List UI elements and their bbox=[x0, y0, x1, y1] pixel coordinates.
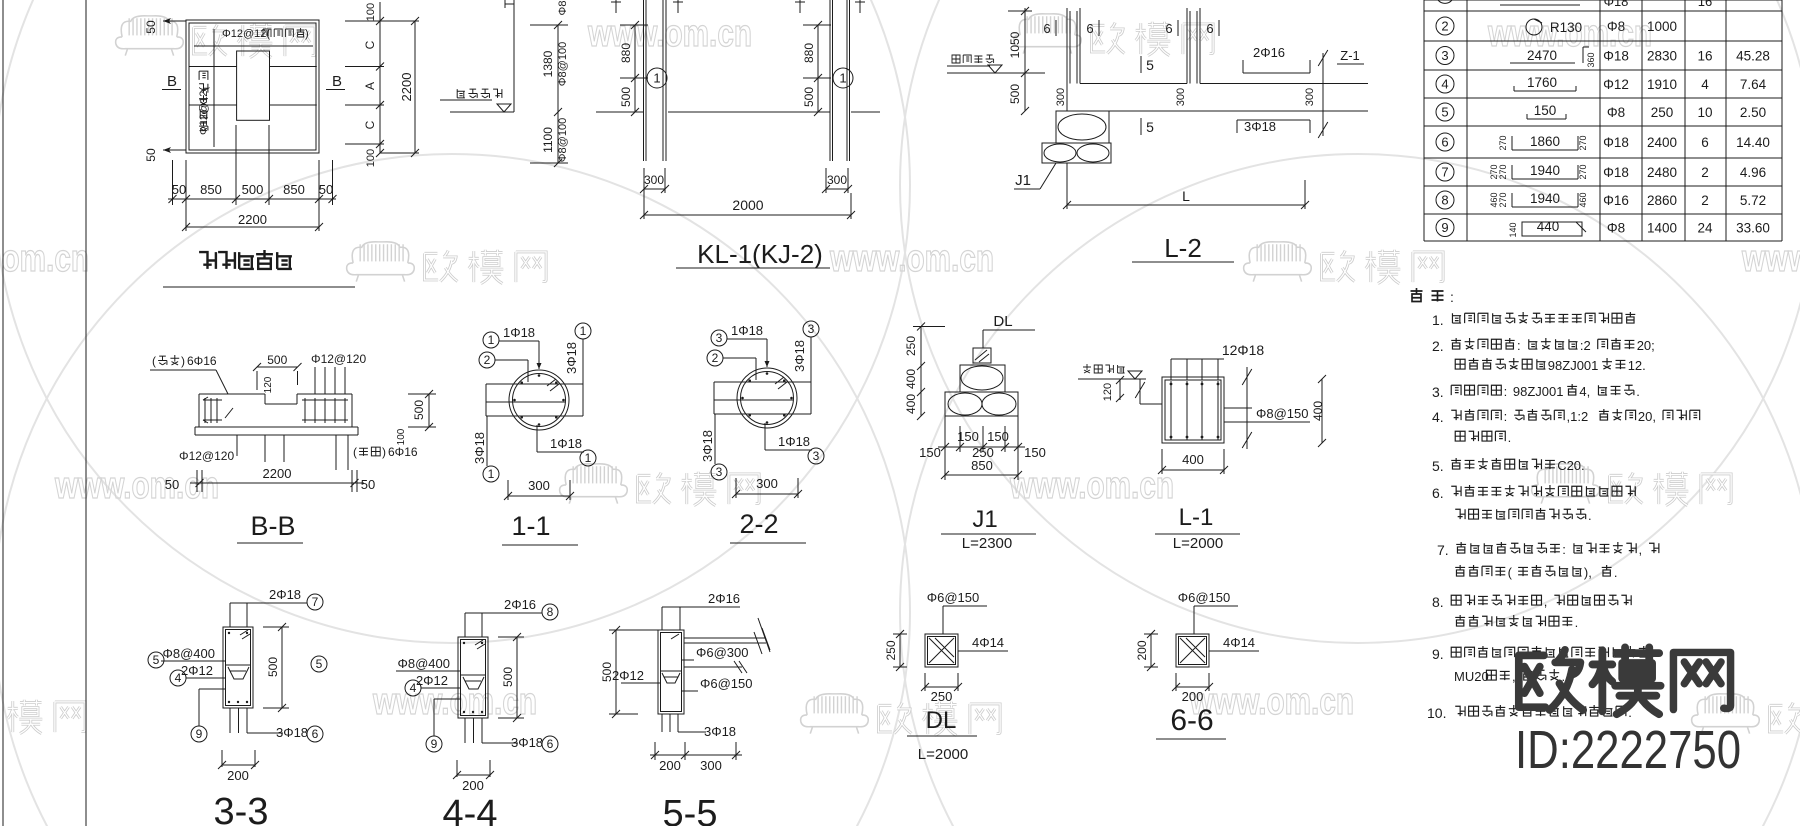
L-2 section marks 6 bbox=[1043, 20, 1219, 36]
svg-text:Φ16: Φ16 bbox=[1603, 193, 1629, 208]
svg-text:50: 50 bbox=[361, 477, 375, 492]
J1 stones bbox=[945, 365, 1018, 416]
svg-text:1Φ18: 1Φ18 bbox=[550, 436, 582, 451]
svg-text:500: 500 bbox=[600, 662, 614, 682]
L-2 right break bbox=[1310, 50, 1368, 138]
svg-text:400: 400 bbox=[904, 369, 918, 389]
svg-text:200: 200 bbox=[462, 778, 484, 793]
svg-text:400: 400 bbox=[904, 394, 918, 414]
L-2 bottom dim L bbox=[1063, 163, 1309, 209]
svg-text:6: 6 bbox=[1701, 135, 1709, 150]
section 3-3 label 2phi12 bbox=[170, 663, 225, 686]
section 5-5 bottom dims 200 300 bbox=[650, 742, 742, 773]
svg-text:2: 2 bbox=[484, 353, 491, 367]
svg-text:2.: 2. bbox=[1432, 338, 1444, 354]
KL-1 bottom dim 2000 bbox=[640, 193, 855, 219]
notes text block bbox=[1427, 312, 1700, 721]
svg-text:6.: 6. bbox=[1432, 485, 1444, 501]
svg-text:270: 270 bbox=[1578, 164, 1588, 179]
svg-text:2Φ16: 2Φ16 bbox=[708, 591, 740, 606]
svg-text:1.: 1. bbox=[1432, 312, 1444, 328]
section 1-1 dim 300 bbox=[504, 478, 574, 500]
svg-text:J1: J1 bbox=[1015, 172, 1031, 189]
svg-text:6: 6 bbox=[1165, 21, 1172, 36]
J1 title bbox=[941, 506, 1036, 552]
svg-text:100: 100 bbox=[365, 3, 377, 21]
section 5-5 label phi6at300 bbox=[682, 645, 749, 660]
svg-text:DL: DL bbox=[926, 707, 957, 734]
KL-1 section marks 1 top bbox=[611, 0, 865, 13]
svg-text:850: 850 bbox=[283, 182, 305, 197]
svg-text:850: 850 bbox=[200, 182, 222, 197]
section 6-6 label phi6at150 bbox=[1178, 590, 1238, 634]
section 3-3 bottom bars bbox=[230, 708, 323, 742]
svg-text:500: 500 bbox=[267, 353, 287, 367]
svg-text:.: . bbox=[1636, 384, 1640, 399]
plan left rotated rebar label bbox=[198, 71, 210, 135]
plan right dim C A C bbox=[345, 2, 384, 167]
svg-text:2000: 2000 bbox=[732, 197, 763, 213]
svg-text:2: 2 bbox=[1441, 19, 1448, 34]
svg-text:500: 500 bbox=[802, 87, 816, 107]
svg-text:150: 150 bbox=[1534, 103, 1557, 118]
plan center column rect bbox=[237, 51, 270, 120]
svg-text:440: 440 bbox=[1537, 219, 1560, 234]
svg-text:1400: 1400 bbox=[1647, 221, 1677, 236]
svg-text:3: 3 bbox=[1441, 48, 1448, 63]
svg-text:Φ18: Φ18 bbox=[1604, 0, 1629, 9]
plan title bbox=[163, 250, 355, 287]
section 3-3 column rect bbox=[223, 627, 253, 708]
svg-text:L=2000: L=2000 bbox=[1173, 535, 1223, 552]
svg-text:3Φ18: 3Φ18 bbox=[564, 342, 579, 374]
svg-text:1Φ18: 1Φ18 bbox=[503, 325, 535, 340]
L-2 level symbol 二层标高 bbox=[947, 55, 1045, 73]
svg-text:Φ18: Φ18 bbox=[1603, 49, 1629, 64]
svg-text:50: 50 bbox=[319, 182, 333, 197]
svg-text:8: 8 bbox=[547, 605, 554, 619]
svg-text:16: 16 bbox=[1697, 49, 1712, 64]
section 4-4 leader 9 bbox=[426, 699, 460, 752]
KL-1 bottom dim 300 left bbox=[640, 168, 669, 193]
KL-1 bottom dim 300 right bbox=[822, 168, 852, 193]
svg-text:1: 1 bbox=[585, 451, 592, 465]
svg-text:1-1: 1-1 bbox=[511, 511, 550, 541]
L-2 wall B bbox=[1187, 8, 1200, 84]
svg-text:5: 5 bbox=[153, 653, 160, 667]
section 2-2 leader 2 bbox=[707, 350, 756, 380]
svg-text:L=2000: L=2000 bbox=[918, 746, 968, 763]
B-B dim 500 top bbox=[253, 353, 302, 390]
svg-text:2: 2 bbox=[712, 351, 719, 365]
section 4-4 label 2phi12 bbox=[405, 673, 460, 696]
svg-text:250: 250 bbox=[931, 689, 953, 704]
svg-text:1: 1 bbox=[488, 333, 495, 347]
svg-text:120: 120 bbox=[1102, 383, 1114, 401]
B-B rebar right group bbox=[302, 398, 348, 423]
svg-text::: : bbox=[1504, 409, 1508, 424]
section 5-5 hook bbox=[661, 671, 682, 683]
svg-text:12.: 12. bbox=[1628, 358, 1646, 373]
section 4-4 title bbox=[443, 793, 498, 831]
KL-1 left column line bbox=[505, 0, 514, 112]
svg-text:9: 9 bbox=[1441, 220, 1448, 235]
B-B footing outline bbox=[195, 394, 358, 435]
svg-text:100: 100 bbox=[365, 149, 377, 167]
svg-text:.: . bbox=[1614, 565, 1618, 580]
section 1-1 leader 3phi18 right bbox=[564, 323, 591, 384]
watermark row A bbox=[116, 13, 1652, 58]
svg-text:100: 100 bbox=[396, 428, 407, 445]
section 4-4 hook detail bbox=[461, 675, 486, 689]
svg-text:3: 3 bbox=[716, 331, 723, 345]
svg-text:7: 7 bbox=[312, 595, 319, 609]
section 3-3 leader 9 bbox=[191, 689, 225, 742]
svg-text:500: 500 bbox=[266, 657, 280, 677]
svg-text::: : bbox=[1504, 384, 1508, 399]
svg-text:6: 6 bbox=[1086, 21, 1093, 36]
section 1-1 leader 1phi18 bottom bbox=[537, 425, 596, 466]
svg-text:1: 1 bbox=[488, 467, 495, 481]
svg-text:500: 500 bbox=[1008, 84, 1022, 104]
B-B bottom dim 50 2200 50 bbox=[165, 466, 375, 492]
svg-text:1: 1 bbox=[839, 71, 846, 86]
section 5-5 left dim 500 bbox=[600, 626, 659, 718]
svg-text:2200: 2200 bbox=[238, 212, 267, 227]
B-B lower stubs bbox=[265, 435, 348, 470]
rebar table shape row5 bbox=[1527, 103, 1566, 119]
svg-text:460: 460 bbox=[1578, 192, 1588, 207]
section 2-2 leader 3phi18 right bbox=[792, 321, 819, 382]
svg-text:www.om.cn: www.om.cn bbox=[1189, 681, 1354, 723]
svg-text:150: 150 bbox=[987, 429, 1009, 444]
svg-text:3Φ18: 3Φ18 bbox=[792, 340, 807, 372]
section 5-5 lower beam line bbox=[684, 661, 747, 673]
svg-text:5.72: 5.72 bbox=[1740, 193, 1766, 208]
svg-text:400: 400 bbox=[1182, 452, 1204, 467]
section 1-1 leader 1phi18 top bbox=[483, 325, 542, 369]
svg-text:L=2300: L=2300 bbox=[962, 535, 1012, 552]
L-2 rotated dims 300 bbox=[1055, 88, 1316, 106]
section mark B left bbox=[162, 73, 181, 90]
svg-text:5: 5 bbox=[1146, 119, 1154, 135]
svg-text:Φ8: Φ8 bbox=[1607, 221, 1625, 236]
svg-text:5: 5 bbox=[1441, 105, 1448, 120]
J1 DL square bbox=[973, 348, 991, 363]
section 1-1 beam stubs bbox=[486, 384, 583, 416]
svg-text:2830: 2830 bbox=[1647, 49, 1677, 64]
section 1-1 column circle bbox=[509, 370, 569, 430]
svg-text:20,: 20, bbox=[1638, 409, 1656, 424]
rebar table shape row8 bbox=[1489, 191, 1588, 208]
svg-text:3.: 3. bbox=[1432, 384, 1444, 400]
svg-text:3Φ18: 3Φ18 bbox=[704, 724, 736, 739]
plan right dim 2200 bbox=[380, 17, 419, 157]
svg-text:8.: 8. bbox=[1432, 594, 1444, 610]
section 4-4 column rect bbox=[458, 637, 488, 718]
svg-text:2Φ12: 2Φ12 bbox=[416, 673, 448, 688]
section 6-6 square bbox=[1176, 634, 1209, 667]
section 2-2 leader 3phi18 bottom-left bbox=[700, 414, 727, 480]
svg-text:300: 300 bbox=[644, 173, 664, 187]
svg-text:Φ6@150: Φ6@150 bbox=[700, 676, 753, 691]
svg-text:Φ8@100: Φ8@100 bbox=[557, 118, 569, 162]
section 6-6 title bbox=[1156, 704, 1226, 739]
L-2 left dim 1050 500 bbox=[1008, 7, 1032, 115]
svg-text:300: 300 bbox=[1055, 88, 1067, 106]
section 6-6 label 4phi14 bbox=[1209, 635, 1259, 651]
L-2 title bbox=[1132, 233, 1234, 263]
svg-text:3: 3 bbox=[716, 465, 723, 479]
svg-text:7.: 7. bbox=[1437, 542, 1449, 558]
section 1-1 leader 3phi18 bottom-left bbox=[472, 416, 499, 482]
KL-1 left dim 1380 1100 bbox=[530, 1, 569, 167]
svg-text:2400: 2400 bbox=[1647, 135, 1677, 150]
svg-text:1: 1 bbox=[653, 71, 660, 86]
svg-text:1860: 1860 bbox=[1530, 134, 1560, 149]
svg-text:500: 500 bbox=[242, 182, 264, 197]
L-2 stone footing J1 bbox=[1042, 111, 1111, 163]
section 5-5 label phi6at150 bbox=[682, 676, 753, 691]
svg-text:Φ8@400: Φ8@400 bbox=[398, 656, 451, 671]
KL-1 beam top line bbox=[596, 111, 880, 113]
watermark row D bbox=[0, 681, 1800, 736]
svg-text:4Φ14: 4Φ14 bbox=[1223, 635, 1255, 650]
B-B label fujia 6phi16 left bbox=[150, 354, 228, 394]
svg-text:2Φ16: 2Φ16 bbox=[1253, 45, 1285, 60]
svg-text:98ZJ001: 98ZJ001 bbox=[1548, 358, 1599, 373]
section mark B right bbox=[326, 73, 345, 90]
section 5-5 beam stub right bbox=[684, 618, 770, 654]
svg-text:.: . bbox=[1575, 615, 1579, 630]
section 2-2 title bbox=[730, 509, 806, 543]
rebar table shape row7 bbox=[1489, 163, 1588, 180]
L-1 level symbol 二层标高 bbox=[1078, 364, 1146, 379]
B-B right dim 500 100 bbox=[396, 390, 436, 445]
svg-text:5: 5 bbox=[316, 657, 323, 671]
svg-text:C: C bbox=[363, 40, 377, 49]
svg-text:1940: 1940 bbox=[1530, 163, 1560, 178]
svg-text:500: 500 bbox=[619, 87, 633, 107]
svg-text:6: 6 bbox=[312, 727, 319, 741]
svg-text:6Φ16: 6Φ16 bbox=[187, 354, 217, 368]
plan top rebar label bbox=[222, 28, 309, 40]
svg-text:300: 300 bbox=[827, 173, 847, 187]
section DL left dim bbox=[884, 630, 907, 671]
svg-text:880: 880 bbox=[619, 43, 633, 63]
svg-text::: : bbox=[1562, 542, 1566, 557]
svg-text:1100: 1100 bbox=[541, 127, 555, 153]
L-1 title bbox=[1155, 504, 1240, 552]
svg-text:2Φ12: 2Φ12 bbox=[181, 663, 213, 678]
svg-text:5-5: 5-5 bbox=[663, 793, 718, 826]
B-B label phi12at120 top bbox=[311, 352, 366, 394]
svg-text:www.om.cn: www.om.cn bbox=[829, 238, 994, 280]
svg-text:2: 2 bbox=[1701, 165, 1709, 180]
svg-text::: : bbox=[1450, 289, 1454, 305]
section 4-4 top bars leader bbox=[465, 597, 558, 637]
L-2 section marks 5 bbox=[1141, 56, 1154, 135]
KL-1 column B rebar bbox=[830, 0, 850, 161]
svg-text:B-B: B-B bbox=[250, 511, 295, 541]
section 1-1 leader 2 bbox=[479, 352, 528, 382]
KL-1 title bbox=[676, 239, 830, 269]
rebar table shape row4 bbox=[1514, 75, 1576, 91]
svg-text:B: B bbox=[332, 73, 342, 90]
svg-text:Φ12: Φ12 bbox=[1603, 77, 1629, 92]
J1 dim 850 bbox=[941, 458, 1022, 479]
svg-text:Φ8: Φ8 bbox=[1607, 105, 1625, 120]
svg-text:2480: 2480 bbox=[1647, 165, 1677, 180]
svg-text:Φ8@150: Φ8@150 bbox=[1256, 406, 1309, 421]
section 6-6 bottom dim bbox=[1172, 673, 1213, 704]
KL-1 level symbol 一层标高 bbox=[440, 89, 514, 112]
svg-text:1940: 1940 bbox=[1530, 191, 1560, 206]
section 5-5 bottom bars bbox=[662, 714, 736, 739]
svg-text:200: 200 bbox=[659, 758, 681, 773]
rebar table phi length count weight bbox=[1603, 19, 1770, 236]
KL-1 column A rebar bbox=[644, 0, 667, 161]
svg-text:3: 3 bbox=[813, 449, 820, 463]
svg-text:270: 270 bbox=[1578, 135, 1588, 150]
svg-text:3: 3 bbox=[808, 322, 815, 336]
section 5-5 title bbox=[663, 793, 718, 831]
svg-text:www.om.cn: www.om.cn bbox=[1741, 238, 1800, 280]
KL-1 col A dims 880 500 bbox=[619, 21, 648, 116]
watermark row B bbox=[0, 238, 1800, 284]
L-1 right break and label bbox=[1224, 367, 1310, 449]
notes heading bbox=[1411, 288, 1454, 305]
svg-text:2200: 2200 bbox=[263, 466, 292, 481]
svg-text:50: 50 bbox=[165, 477, 179, 492]
svg-text:1000: 1000 bbox=[1647, 19, 1677, 34]
big logo OMW bbox=[1519, 647, 1731, 714]
svg-text:www.om.cn: www.om.cn bbox=[1009, 465, 1174, 507]
section DL title bbox=[907, 707, 977, 763]
L-2 wall A bbox=[1067, 8, 1080, 111]
rebar table shape row3 bbox=[1510, 47, 1596, 68]
svg-text:,: , bbox=[1639, 542, 1643, 557]
section 2-2 leader 1phi18 top bbox=[711, 323, 770, 367]
svg-text:3Φ18: 3Φ18 bbox=[511, 735, 543, 750]
svg-text:C20.: C20. bbox=[1557, 458, 1584, 473]
L-1 right dim 400 bbox=[1311, 375, 1326, 447]
svg-text:50: 50 bbox=[144, 20, 158, 34]
B-B dim 120 bbox=[263, 376, 274, 393]
section 3-3 label phi8at400 bbox=[161, 646, 225, 661]
svg-text:50: 50 bbox=[172, 182, 186, 197]
svg-text:Φ12@120: Φ12@120 bbox=[179, 449, 234, 463]
svg-text:12Φ18: 12Φ18 bbox=[1222, 342, 1265, 358]
svg-text:300: 300 bbox=[1304, 88, 1316, 106]
svg-text:www.om.cn: www.om.cn bbox=[54, 465, 219, 507]
svg-text:9.: 9. bbox=[1432, 646, 1444, 662]
L-2 label 3Φ18 bbox=[1237, 119, 1310, 134]
svg-text:ID:2222750: ID:2222750 bbox=[1515, 720, 1741, 780]
svg-text::: : bbox=[1517, 338, 1521, 353]
section DL label phi6at150 bbox=[927, 590, 987, 634]
svg-text:Φ8@100: Φ8@100 bbox=[557, 42, 569, 86]
svg-text:7: 7 bbox=[1441, 165, 1448, 180]
L-1 label 12phi18 bbox=[1171, 342, 1264, 380]
svg-text:Φ8: Φ8 bbox=[1607, 19, 1625, 34]
plan bottom dim 2200 bbox=[182, 199, 323, 231]
svg-text:4: 4 bbox=[1701, 77, 1709, 92]
plan bottom dims 50 850 500 850 50 bbox=[168, 125, 337, 205]
svg-text:4-4: 4-4 bbox=[443, 793, 498, 826]
svg-text:250: 250 bbox=[904, 336, 918, 356]
section DL square bbox=[925, 634, 958, 667]
svg-text:Φ8@400: Φ8@400 bbox=[163, 646, 216, 661]
svg-text:50: 50 bbox=[144, 148, 158, 162]
svg-text:,: , bbox=[1544, 594, 1548, 609]
B-B rebar left group bbox=[203, 397, 233, 423]
svg-text:500: 500 bbox=[501, 667, 515, 687]
svg-text:www.om.cn: www.om.cn bbox=[0, 238, 89, 280]
svg-text:L-1: L-1 bbox=[1179, 504, 1214, 531]
svg-text:7.64: 7.64 bbox=[1740, 77, 1767, 92]
rebar table grid bbox=[1424, 0, 1782, 241]
svg-text:300: 300 bbox=[700, 758, 722, 773]
svg-text:98ZJ001: 98ZJ001 bbox=[1513, 384, 1564, 399]
svg-text:(: ( bbox=[1508, 565, 1513, 580]
svg-text:.: . bbox=[1588, 508, 1592, 523]
svg-text:6: 6 bbox=[547, 737, 554, 751]
svg-text:4,: 4, bbox=[1579, 384, 1590, 399]
svg-text:1: 1 bbox=[580, 324, 587, 338]
KL-1 col A section circle 1 bbox=[647, 68, 667, 88]
svg-text:2Φ12: 2Φ12 bbox=[612, 668, 644, 683]
section 4-4 bottom dim 200 bbox=[453, 760, 494, 793]
svg-text:2-2: 2-2 bbox=[739, 509, 778, 539]
svg-text:250: 250 bbox=[884, 640, 898, 660]
J1 label DL bbox=[983, 313, 1035, 348]
svg-text:4.96: 4.96 bbox=[1740, 165, 1766, 180]
svg-text:2470: 2470 bbox=[1527, 48, 1557, 63]
section 3-3 bottom dim 200 bbox=[218, 750, 259, 783]
svg-text:2200: 2200 bbox=[399, 73, 414, 102]
svg-text:2.50: 2.50 bbox=[1740, 105, 1766, 120]
svg-text:300: 300 bbox=[1175, 88, 1187, 106]
section 5-5 label 2phi12 bbox=[612, 668, 660, 683]
svg-text:C: C bbox=[363, 120, 377, 129]
svg-text:6: 6 bbox=[1043, 21, 1050, 36]
svg-text:9: 9 bbox=[431, 737, 438, 751]
svg-text:1050: 1050 bbox=[1008, 31, 1022, 58]
L-2 label 2Φ16 bbox=[1243, 45, 1310, 73]
svg-text:300: 300 bbox=[756, 476, 778, 491]
L-1 bottom dim 400 bbox=[1158, 449, 1228, 474]
section 5-5 top bars bbox=[662, 591, 740, 630]
svg-text:L: L bbox=[1182, 188, 1190, 204]
svg-text:200: 200 bbox=[1135, 640, 1149, 660]
svg-text:10: 10 bbox=[1697, 105, 1712, 120]
svg-text:16: 16 bbox=[1698, 0, 1712, 9]
svg-text:3Φ18: 3Φ18 bbox=[700, 430, 715, 462]
B-B label fujia 6phi16 right bbox=[353, 445, 418, 459]
svg-text:2Φ16: 2Φ16 bbox=[504, 597, 536, 612]
svg-text:,1:2: ,1:2 bbox=[1567, 409, 1589, 424]
svg-text:360: 360 bbox=[1586, 52, 1596, 67]
section 3-3 title bbox=[214, 791, 269, 831]
svg-text:4.: 4. bbox=[1432, 409, 1444, 425]
plan top-left 50 note bbox=[144, 18, 186, 34]
svg-text:150: 150 bbox=[919, 445, 941, 460]
svg-text:): ) bbox=[382, 445, 386, 459]
svg-text:1Φ18: 1Φ18 bbox=[731, 323, 763, 338]
svg-text:45.28: 45.28 bbox=[1736, 49, 1770, 64]
svg-text:Z-1: Z-1 bbox=[1340, 48, 1360, 63]
